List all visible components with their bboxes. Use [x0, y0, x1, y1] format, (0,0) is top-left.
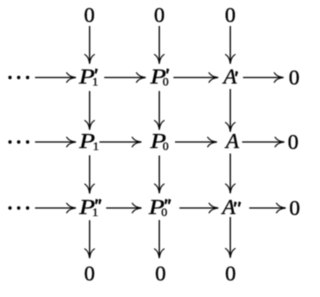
- arrow P_0 to P''_0: [155, 156, 165, 194]
- ellipsis (row P): [8, 140, 29, 143]
- arrow A to A'': [226, 154, 236, 194]
- arrow P_1 to P''_1: [85, 155, 95, 193]
- object P'_0: [149, 65, 169, 89]
- arrow 0 to A': [226, 26, 236, 64]
- arrow P'_1 to P_1: [85, 91, 95, 130]
- arrow dots to P'_1: [35, 73, 76, 83]
- svg-text:0: 0: [289, 66, 300, 90]
- svg-text:0: 0: [84, 3, 95, 27]
- arrow A' to 0: [243, 73, 284, 83]
- svg-text:0: 0: [154, 3, 165, 27]
- arrow P'_0 to P_0: [155, 91, 165, 130]
- object P''_0: [148, 196, 171, 220]
- arrow dots to P_1: [35, 137, 76, 147]
- object P_1: [78, 130, 99, 154]
- svg-text:0: 0: [225, 261, 236, 285]
- svg-text:A: A: [224, 129, 240, 153]
- arrow 0 to P'_1: [85, 26, 95, 64]
- arrow 0 to P'_0: [155, 26, 165, 64]
- arrow A to 0: [242, 137, 284, 147]
- object P''_1: [78, 196, 101, 220]
- svg-text:1: 1: [92, 205, 98, 219]
- svg-text:0: 0: [161, 205, 167, 219]
- object A: [224, 129, 240, 153]
- arrow dots to P''_1: [35, 203, 76, 213]
- svg-text:A: A: [220, 195, 236, 219]
- arrow P'_1 to P'_0: [104, 73, 146, 83]
- svg-text:0: 0: [163, 75, 169, 89]
- arrow P''_1 to P''_0: [106, 203, 142, 213]
- arrow A'' to 0: [226, 217, 236, 258]
- object P_0: [149, 130, 168, 154]
- svg-text:1: 1: [92, 75, 98, 89]
- object A'': [220, 195, 241, 219]
- arrow P''_0 to 0: [155, 220, 165, 258]
- arrow A'' to 0: [249, 203, 286, 213]
- svg-text:1: 1: [93, 139, 99, 153]
- svg-text:A: A: [222, 65, 238, 89]
- svg-text:0: 0: [155, 261, 166, 285]
- arrow P_1 to P_0: [99, 137, 141, 147]
- ellipsis (row P''): [8, 206, 29, 209]
- arrow P''_0 to A'': [179, 203, 218, 213]
- arrow P''_1 to 0: [85, 220, 95, 258]
- svg-text:0: 0: [163, 139, 169, 153]
- svg-text:0: 0: [289, 196, 300, 220]
- svg-text:0: 0: [288, 130, 299, 154]
- object P'_1: [78, 65, 98, 89]
- arrow P'_0 to A': [173, 73, 218, 83]
- object A': [222, 65, 239, 89]
- ellipsis (row P'): [8, 76, 29, 79]
- arrow A' to A: [226, 89, 236, 132]
- svg-text:0: 0: [84, 261, 95, 285]
- svg-text:0: 0: [225, 3, 236, 27]
- arrow P_0 to A: [175, 137, 217, 147]
